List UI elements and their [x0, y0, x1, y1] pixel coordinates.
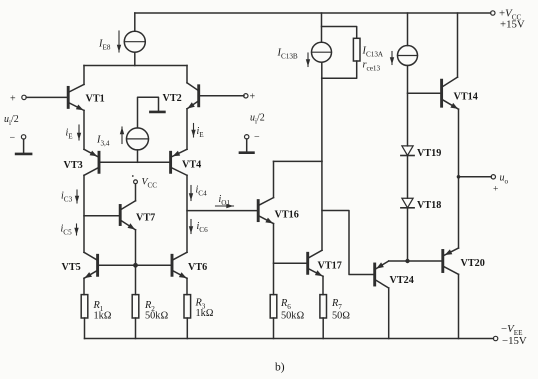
- arrow IC13B: [306, 53, 310, 67]
- svg-text:VT18: VT18: [417, 200, 441, 211]
- wire I3,4 to base link: [137, 150, 139, 162]
- wire VT19 to VT18: [407, 156, 409, 199]
- label iC6: [197, 221, 209, 234]
- terminal -Vee: [493, 336, 497, 340]
- wire iO1 to VT16 base: [187, 210, 258, 212]
- current source IC13A: [398, 46, 418, 66]
- arrow iC3: [75, 190, 79, 203]
- diode VT19: [401, 146, 414, 156]
- svg-text:50kΩ: 50kΩ: [145, 311, 168, 322]
- transistor VT3: [84, 149, 99, 175]
- wire IC13A to VT14 base node: [407, 66, 409, 146]
- wire VT2 collector: [186, 66, 188, 83]
- wire VT1 collector: [83, 66, 85, 85]
- transistor VT16: [258, 198, 273, 224]
- wire R2 to rail: [135, 318, 137, 339]
- transistor VT2: [187, 83, 199, 109]
- label + left input: [10, 94, 16, 105]
- label Vcc VT7: [142, 177, 158, 190]
- ground right input: [240, 151, 254, 154]
- label IC13B: [277, 48, 298, 61]
- svg-text:+: +: [250, 92, 256, 103]
- svg-text:VT3: VT3: [64, 160, 83, 171]
- current source IC13B: [312, 42, 332, 62]
- label VT20: [461, 258, 485, 269]
- wire VT7 base line: [84, 215, 120, 217]
- resistor rce13: [353, 38, 360, 61]
- wire right minus to ground: [246, 139, 248, 151]
- svg-text:VT16: VT16: [275, 210, 299, 221]
- label VT4: [182, 160, 201, 171]
- label VT17: [318, 261, 342, 272]
- wire VT5-VT6 base link: [98, 264, 172, 266]
- label VT2: [163, 93, 182, 104]
- transistor VT4: [171, 149, 187, 175]
- wire rce13 parallel bottom: [322, 61, 357, 78]
- svg-text:VT4: VT4: [182, 160, 201, 171]
- svg-text:VT5: VT5: [62, 262, 81, 273]
- wire IC13A top: [407, 13, 409, 46]
- transistor VT24: [375, 261, 389, 288]
- wire input+ left to VT1 base: [26, 96, 68, 98]
- arrow iO1: [216, 204, 234, 208]
- svg-text:−15V: −15V: [502, 335, 527, 347]
- transistor VT7: [120, 201, 135, 230]
- label b): [275, 362, 285, 374]
- wire IE8 bottom: [134, 52, 136, 65]
- wire VT3 collector (iC3/iC5): [83, 175, 85, 252]
- transistor VT6: [172, 252, 187, 278]
- wire VT14 base: [408, 92, 442, 94]
- wire VT4 collector (iC4/iC6): [186, 175, 188, 252]
- wire -Vee bottom rail: [85, 338, 494, 340]
- arrow iC6: [189, 220, 193, 234]
- wire junction to R2: [135, 265, 137, 294]
- label VT1: [86, 94, 105, 105]
- label R2 value: [145, 311, 168, 322]
- wire VAS to VT24 branch: [322, 211, 375, 275]
- label VT6: [188, 262, 207, 273]
- label R1: [93, 300, 104, 313]
- wire R7 to rail: [322, 318, 324, 339]
- wire VT2 emitter: [186, 109, 188, 150]
- node VT5/VT6/VT7 junction: [133, 263, 138, 268]
- terminal input - left: [21, 135, 25, 139]
- label ui/2 left: [4, 114, 19, 127]
- dot above Vcc terminal: [132, 175, 134, 177]
- svg-text:−: −: [10, 133, 16, 144]
- wire R3 to rail: [186, 318, 188, 339]
- label iE left: [66, 128, 74, 141]
- svg-text:50Ω: 50Ω: [332, 311, 350, 322]
- wire VT16 collector up: [273, 161, 275, 197]
- transistor VT5: [84, 252, 98, 278]
- wire VT17 emitter to R7: [322, 276, 324, 294]
- arrow IE8: [117, 31, 121, 52]
- transistor VT14: [442, 77, 459, 109]
- wire VT7 emitter: [135, 230, 137, 265]
- arrow iC4: [189, 186, 193, 201]
- label rce13: [363, 60, 381, 73]
- diode VT18: [401, 198, 414, 208]
- label -Vee: [501, 323, 523, 337]
- label - left input: [10, 133, 16, 144]
- wire R1 to rail: [84, 318, 86, 339]
- svg-text:1kΩ: 1kΩ: [196, 308, 214, 319]
- wire Vcc to VT7 collector: [135, 184, 137, 201]
- terminal input - right: [245, 135, 249, 139]
- wire +Vcc top rail: [135, 12, 491, 14]
- current source IE8: [124, 31, 145, 52]
- wire VT24 collector to rail: [388, 288, 390, 339]
- wire VT17 base link: [274, 262, 308, 264]
- label VT7: [136, 213, 155, 224]
- label +Vcc: [499, 8, 521, 22]
- label iC4: [196, 185, 208, 198]
- label IC13A: [362, 46, 384, 59]
- transistor VT17: [308, 250, 323, 276]
- transistor VT1: [68, 84, 84, 110]
- wire output to terminal: [459, 176, 492, 178]
- resistor R1: [81, 295, 88, 318]
- label ui/2 right: [250, 113, 265, 126]
- label VT3: [64, 160, 83, 171]
- wire VT1 emitter: [83, 110, 85, 149]
- label VT5: [62, 262, 81, 273]
- svg-text:VT24: VT24: [390, 275, 414, 286]
- terminal +Vcc: [491, 11, 495, 15]
- svg-text:+: +: [493, 185, 498, 195]
- arrow iE right: [191, 124, 195, 138]
- wire VT1-VT2 collector bus: [84, 65, 187, 67]
- terminal Vcc VT7: [134, 180, 138, 184]
- arrow iE left: [77, 125, 81, 140]
- current source I3,4: [127, 128, 149, 150]
- svg-text:VT14: VT14: [454, 92, 478, 103]
- ground I3,4 bias: [150, 111, 164, 114]
- label I3,4: [96, 135, 110, 148]
- terminal input + right: [244, 94, 248, 98]
- wire left minus to ground: [23, 139, 25, 153]
- ground left input: [16, 153, 31, 156]
- label VT18: [417, 200, 441, 211]
- wire IC13B bottom / VAS rail: [321, 62, 323, 250]
- wire VT16 emitter chain: [273, 224, 275, 295]
- resistor R7: [320, 295, 327, 318]
- label R7 value: [332, 311, 350, 322]
- label R2: [144, 300, 155, 313]
- label VT14: [454, 92, 478, 103]
- label R1 value: [94, 311, 112, 322]
- label R7: [331, 298, 342, 311]
- wire output emitter bus: [458, 109, 460, 248]
- svg-text:VT20: VT20: [461, 258, 485, 269]
- svg-text:VT7: VT7: [136, 213, 155, 224]
- arrow iC5: [74, 224, 78, 235]
- label R3 value: [196, 308, 214, 319]
- label iE right: [197, 126, 205, 139]
- wire VT6 emitter to R3: [186, 278, 188, 294]
- svg-text:VT1: VT1: [86, 94, 105, 105]
- wire VT16 collector link: [274, 160, 323, 162]
- terminal input + left: [22, 95, 26, 99]
- transistor VT20: [443, 248, 459, 274]
- wire VT20 collector to rail: [458, 274, 460, 338]
- node drive junction: [405, 259, 409, 263]
- label R6: [280, 298, 291, 311]
- label VT24: [390, 275, 414, 286]
- svg-text:b): b): [275, 362, 285, 374]
- svg-text:ui/2: ui/2: [4, 114, 19, 127]
- wire IC13B top: [321, 13, 323, 42]
- wire rce13 parallel top: [322, 27, 357, 39]
- label iC3: [61, 191, 73, 204]
- svg-text:+15V: +15V: [500, 19, 525, 31]
- svg-text:VT19: VT19: [417, 148, 441, 159]
- label iO1: [219, 194, 231, 207]
- resistor R2: [132, 295, 139, 318]
- wire R6 to rail: [273, 318, 275, 339]
- resistor R6: [270, 295, 277, 318]
- label uo: [500, 173, 509, 186]
- resistor R3: [184, 295, 191, 318]
- arrow IC13A: [390, 52, 394, 65]
- wire VT14 collector up: [457, 13, 459, 77]
- wire I3,4 to ground: [138, 97, 159, 128]
- label R3: [195, 298, 206, 311]
- node output tap: [457, 175, 461, 179]
- svg-text:VT17: VT17: [318, 261, 342, 272]
- arrow I3,4: [120, 127, 124, 144]
- label VT19: [417, 148, 441, 159]
- label + output: [493, 185, 498, 195]
- label IE8: [98, 39, 111, 52]
- wire VT18 down to drive node: [407, 208, 409, 261]
- label R6 value: [281, 311, 304, 322]
- label iC5: [61, 224, 73, 237]
- svg-text:ui/2: ui/2: [250, 113, 265, 126]
- wire VT3-VT4 base link: [99, 161, 171, 163]
- svg-text:VT6: VT6: [188, 262, 207, 273]
- label -15V: [502, 335, 527, 347]
- label +15V: [500, 19, 525, 31]
- wire VT5 emitter to R1: [83, 278, 85, 294]
- label - right input: [254, 132, 260, 143]
- wire VT2 base to input+: [199, 95, 244, 97]
- svg-text:+: +: [10, 94, 16, 105]
- svg-text:−: −: [254, 132, 260, 143]
- svg-text:VT2: VT2: [163, 93, 182, 104]
- terminal uo: [491, 175, 495, 179]
- label VT16: [275, 210, 299, 221]
- svg-text:50kΩ: 50kΩ: [281, 311, 304, 322]
- svg-text:1kΩ: 1kΩ: [94, 311, 112, 322]
- label + right input: [250, 92, 256, 103]
- wire IE8 top: [134, 13, 136, 31]
- wire VT24 emitter to VT20 base: [389, 260, 443, 262]
